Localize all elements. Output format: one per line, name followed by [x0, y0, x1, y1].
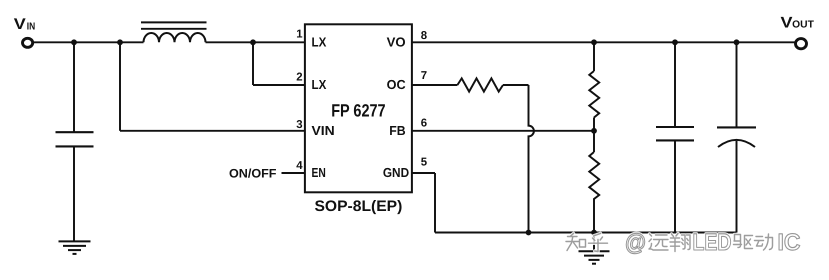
svg-text:OC: OC [387, 77, 407, 92]
svg-text:EN: EN [312, 165, 326, 180]
resistor R3 [457, 78, 503, 91]
wire OC vertical with hop [529, 85, 534, 233]
node dot VIN-pin3 [117, 39, 123, 45]
capacitor C3 top plate [717, 126, 756, 128]
node dot VO-C3 [734, 39, 740, 45]
svg-text:VO: VO [387, 34, 406, 49]
ground GND2 [579, 251, 610, 264]
wire resistor to corner [503, 84, 529, 86]
wire R2 to bottom rail [593, 202, 595, 233]
wire LX pin2 branch horizontal [253, 84, 305, 86]
watermark hanzi white halo pass [566, 234, 773, 252]
wire VIN pin branch horizontal [120, 130, 305, 132]
svg-text:V: V [14, 16, 27, 33]
wire VIN top rail left [34, 41, 144, 43]
node dot VIN-C1 [71, 39, 77, 45]
watermark Zhihu [566, 229, 801, 255]
capacitor C2 top plate [656, 126, 694, 128]
svg-text:7: 7 [421, 70, 427, 82]
wire R1 to FB node [593, 118, 595, 131]
watermark latin white halo pass [625, 229, 801, 255]
IC U1 FP6277 body [305, 24, 412, 192]
svg-text:2: 2 [296, 72, 302, 84]
svg-text:6: 6 [421, 117, 427, 129]
svg-text:LX: LX [312, 34, 327, 49]
capacitor C1 top plate [56, 131, 94, 133]
svg-text:GND: GND [383, 165, 409, 180]
wire GND pin5 horizontal [412, 172, 435, 174]
wire cap C3 bottom [736, 141, 738, 233]
terminal VOUT [796, 39, 807, 49]
wire LX pin2 branch vertical [252, 42, 254, 85]
svg-text:FB: FB [389, 123, 405, 138]
watermark hanzi gray pass [566, 234, 773, 252]
node dot OC-bottom [526, 230, 532, 236]
wire FB [412, 130, 594, 132]
svg-text:LED: LED [693, 229, 732, 255]
svg-text:VIN: VIN [312, 123, 335, 138]
svg-text:5: 5 [421, 156, 428, 168]
wire cap C3 top [736, 42, 738, 127]
resistor R2 [589, 152, 599, 202]
svg-text:@: @ [625, 229, 646, 255]
wire OC to resistor [412, 84, 458, 86]
svg-text:FP 6277: FP 6277 [331, 101, 385, 121]
svg-text:ON/OFF: ON/OFF [229, 166, 277, 180]
node dot VO-C2 [672, 39, 678, 45]
svg-text:4: 4 [296, 160, 303, 172]
wire cap C2 bottom [674, 140, 676, 232]
inductor L1 [144, 33, 206, 42]
wire inductor to pin1 [206, 41, 305, 43]
svg-text:IN: IN [27, 21, 35, 32]
watermark latin gray pass [625, 229, 801, 255]
wire bottom rail to ground [593, 233, 595, 252]
wire EN [282, 172, 305, 174]
inductor core bar upper [141, 21, 207, 23]
wire cap C2 top [674, 42, 676, 126]
ground GND1 [59, 241, 91, 254]
svg-text:3: 3 [296, 119, 302, 131]
svg-text:SOP-8L(EP): SOP-8L(EP) [315, 198, 403, 215]
inductor core bar lower [141, 28, 207, 30]
wire input cap branch [73, 42, 75, 132]
svg-text:LX: LX [312, 77, 327, 92]
capacitor C1 bottom plate [56, 145, 94, 147]
wire VO to R1 [593, 42, 595, 71]
resistor R1 [589, 71, 599, 118]
svg-text:1: 1 [296, 29, 303, 41]
node dot FB [591, 128, 597, 134]
capacitor C3 curved plate [718, 140, 755, 147]
capacitor C2 bottom plate [656, 139, 694, 141]
node dot VO-R1 [591, 39, 597, 45]
wire VIN pin branch vertical [119, 42, 121, 131]
terminal VIN [23, 38, 33, 47]
wire C1 to ground [73, 146, 75, 241]
svg-text:IC: IC [778, 229, 801, 255]
wire bottom rail [435, 232, 737, 234]
wire GND pin5 vertical [434, 173, 436, 233]
node dot LX [250, 39, 256, 45]
svg-text:OUT: OUT [792, 19, 814, 30]
svg-text:8: 8 [421, 30, 427, 42]
wire FB node to R2 [593, 131, 595, 152]
node dot R2-bottom [591, 230, 597, 236]
wire VO rail [412, 41, 795, 43]
